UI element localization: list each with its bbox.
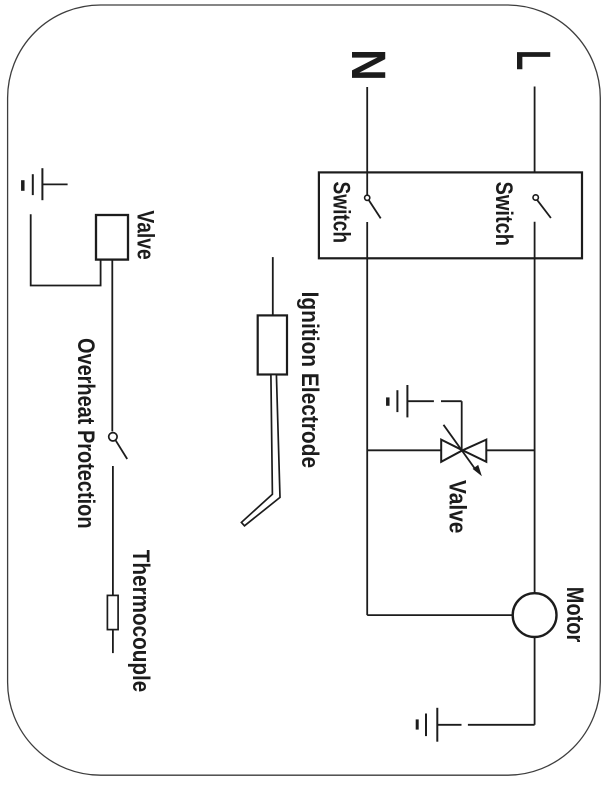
wire motor to ground vertical [534,637,536,725]
switch S1 (N) wire upper [366,172,368,195]
ground G3 (motor) stem [437,724,461,726]
wire valve right segment [486,449,534,451]
wire N from switch to motor feed [366,222,368,615]
switch S1 (N) blade [369,200,381,218]
ground G3 (motor) short bar [416,719,419,729]
wire N feed to motor [367,614,513,616]
wire N to switch box [366,87,368,172]
thermocouple TC1 body [107,595,118,629]
valve V1 arrow shaft [444,425,477,471]
switch S2 (L) pivot circle [533,195,538,200]
valve V1 bowtie symbol [441,440,486,462]
overheat switch S3 blade [116,440,128,459]
svg-text:Switch: Switch [490,182,517,247]
wire ground to valve vertical [461,401,463,449]
wire valve left segment [367,449,441,451]
ground G1 (valve coil) stem [42,183,67,185]
svg-text:Ignition Electrode: Ignition Electrode [296,292,323,469]
overheat switch S3 pivot circle [109,433,117,441]
svg-text:Motor: Motor [561,587,588,643]
ground G2 (valve) short bar [386,397,390,405]
ignition electrode rod [241,375,280,526]
wire overheat switch to thermocouple [112,466,114,595]
wire valve coil to overheat switch [111,260,113,432]
ground G2 (valve) stem [407,400,434,402]
ground G2 (valve) long bar [406,385,408,417]
svg-text:N: N [341,49,394,81]
svg-text:Thermocouple: Thermocouple [127,550,154,693]
svg-text:Switch: Switch [328,182,355,244]
motor M1 circle [513,593,557,637]
switch S1 (N) pivot circle [365,195,370,200]
svg-text:L: L [506,50,559,70]
wire ignition electrode top [272,257,274,315]
switch box outline [319,172,582,258]
wire thermocouple tail [112,630,114,654]
wire L to switch box [534,87,536,173]
svg-text:Valve: Valve [443,480,470,533]
wire L from switch to motor [534,222,536,593]
switch S2 (L) blade [537,200,551,218]
ground G1 (valve coil) long bar [41,168,43,200]
svg-text:Valve: Valve [132,210,159,259]
valve V1 arrow head [473,465,482,476]
wire ground to valve horizontal [441,400,462,402]
wire valve coil return loop [31,214,101,285]
ground G1 (valve coil) middle bar [32,174,34,195]
wire motor to ground horizontal [468,724,535,726]
ignition electrode body box [258,315,287,374]
ground G2 (valve) middle bar [396,390,398,412]
svg-text:Overheat Protection: Overheat Protection [72,338,99,529]
ground G1 (valve coil) short bar [21,180,25,191]
valve V2 coil box [96,215,128,260]
ground G3 (motor) middle bar [425,714,427,737]
ground G3 (motor) long bar [436,708,438,742]
